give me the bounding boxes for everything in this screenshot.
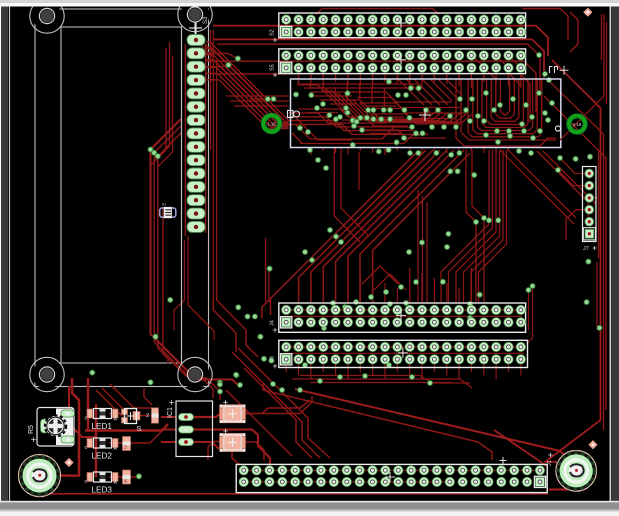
connector J7 xyxy=(583,167,597,253)
fiducial top-right xyxy=(583,8,592,17)
module origin cross xyxy=(189,22,201,34)
capacitor C5 xyxy=(220,429,246,452)
wire headerC top stubs xyxy=(360,268,471,302)
wire speaker net xyxy=(58,378,79,476)
svg-text:4: 4 xyxy=(124,479,127,485)
mounting hole top-left xyxy=(30,0,64,33)
svg-text:S2: S2 xyxy=(270,29,276,36)
wire module vertical bundle xyxy=(151,119,239,385)
wire bottom bus xyxy=(30,493,548,495)
wire IC box nested rings xyxy=(456,79,556,146)
U1 designator mark xyxy=(550,67,558,74)
wire bus top5 xyxy=(213,74,530,122)
wire inner-left verticals xyxy=(151,42,173,167)
wire stub via2 xyxy=(206,65,229,67)
svg-text:3: 3 xyxy=(124,445,127,451)
connector J1 (bottom long header) xyxy=(236,453,553,493)
wire IC box diag bundle xyxy=(398,79,462,105)
LCD module inner outline xyxy=(61,27,182,363)
test ring 1-16 left xyxy=(261,113,282,134)
wire bus top4 xyxy=(213,61,536,112)
LED LED3 xyxy=(85,472,119,495)
wire LED2 net xyxy=(109,431,162,443)
svg-text:LED3: LED3 xyxy=(92,486,113,495)
wire IC1 nets xyxy=(193,412,270,465)
resistor R4 xyxy=(123,470,131,485)
svg-text:NC: NC xyxy=(573,459,579,464)
wire long diagonal 1 xyxy=(295,389,572,462)
LED LED1 xyxy=(85,409,119,432)
wire header right-end stubs xyxy=(472,55,521,85)
resistor R2 xyxy=(146,408,159,423)
regulator IC1 xyxy=(176,401,213,457)
svg-text:DIG: DIG xyxy=(36,464,43,469)
svg-text:S: S xyxy=(137,424,142,433)
hole keepout masks xyxy=(33,2,62,31)
svg-text:1-16: 1-16 xyxy=(573,122,582,127)
wire top right hooks xyxy=(522,9,578,53)
wire right verticals to J7 xyxy=(466,150,596,302)
wire SP2 feed xyxy=(549,488,568,490)
LCD module outer outline xyxy=(35,9,209,387)
svg-text:1-16: 1-16 xyxy=(267,121,276,126)
wire long diagonal 3 xyxy=(494,430,546,466)
svg-text:J3: J3 xyxy=(270,356,276,362)
wire fan horizontals xyxy=(226,96,289,106)
IC U1 outline xyxy=(288,79,561,148)
svg-text:S5: S5 xyxy=(270,64,276,71)
buzzer SP2 xyxy=(556,451,597,492)
connector J4 (middle header upper) xyxy=(270,303,526,332)
buzzer SP1 xyxy=(19,455,61,497)
mounting hole bottom-left xyxy=(30,357,64,391)
wire bus top1 xyxy=(213,26,548,56)
svg-text:R5: R5 xyxy=(28,425,35,434)
wire chevrons xyxy=(362,266,406,290)
wire left edge top diag xyxy=(196,35,213,57)
svg-text:MB: MB xyxy=(37,485,43,490)
capacitor C4 xyxy=(220,400,246,423)
LED LED2 xyxy=(85,438,119,461)
window chrome left strip xyxy=(0,7,1,516)
wire LED1 net xyxy=(109,388,152,416)
switch S xyxy=(122,409,142,434)
window chrome right strip xyxy=(612,7,619,503)
mounting hole top-right xyxy=(178,0,212,32)
wire center highway xyxy=(262,150,470,318)
wire middle header row buses xyxy=(283,310,524,353)
svg-text:S3: S3 xyxy=(203,16,209,24)
connector SV2 (top boot header) xyxy=(270,13,526,42)
wire R5 net xyxy=(69,386,96,437)
wire bus top2 xyxy=(213,39,544,78)
wire right vertical bundle xyxy=(441,150,507,302)
window chrome bottom bars xyxy=(0,501,619,503)
wire headerC right bends xyxy=(528,286,533,343)
connector LCD1 (16-pin SIL) xyxy=(182,27,206,363)
wire IC box maze xyxy=(289,82,473,144)
wire caps net xyxy=(232,442,264,465)
svg-text:J7: J7 xyxy=(583,246,589,252)
wire top rail xyxy=(316,9,439,15)
wire LCD connector rails xyxy=(184,44,186,236)
wire right edge rails xyxy=(545,60,601,462)
svg-text:IC1: IC1 xyxy=(167,407,174,418)
wire via pair link xyxy=(250,98,274,100)
wire bus top3 xyxy=(217,44,540,96)
board left edge xyxy=(9,6,11,501)
wire J7 links xyxy=(558,158,599,240)
wire left bundle bends xyxy=(213,280,330,458)
svg-text:J1: J1 xyxy=(547,460,553,466)
wire bottom header row buses xyxy=(240,470,536,482)
svg-text:LED2: LED2 xyxy=(92,452,113,461)
wire LED column net xyxy=(85,378,168,477)
svg-text:LED1: LED1 xyxy=(92,422,113,431)
svg-text:MB: MB xyxy=(573,480,579,485)
board right edge xyxy=(609,6,611,501)
wire long diagonal 2 xyxy=(263,384,492,460)
potentiometer R5 xyxy=(37,408,75,447)
bottom header aux cross xyxy=(500,457,507,464)
svg-text:J4: J4 xyxy=(270,320,276,326)
wire diag into S xyxy=(96,384,152,416)
smd part icon xyxy=(160,203,176,219)
wire top right rails xyxy=(560,14,607,140)
resistor R3 xyxy=(123,437,131,452)
wire center verticals xyxy=(334,148,368,242)
wire mid-bottom collectors xyxy=(286,364,521,379)
wire LED3 net xyxy=(109,476,139,478)
mounting hole bottom-right xyxy=(178,357,212,391)
LCD1 origin cross xyxy=(190,22,202,34)
window chrome top strip xyxy=(0,0,619,3)
wire IC box stubs xyxy=(299,73,521,88)
connector J3 (middle header lower) xyxy=(270,340,528,368)
test ring 1-16 right xyxy=(567,114,588,135)
fiducial bottom-right xyxy=(588,440,597,449)
U1 origin cross xyxy=(560,66,569,75)
wire fan from LCD connector xyxy=(206,42,289,120)
fiducial left xyxy=(64,458,73,467)
svg-text:A1: A1 xyxy=(162,203,166,207)
vias xyxy=(90,52,602,479)
wire below-box stubs xyxy=(311,148,521,155)
connector SV5 (second header) xyxy=(270,49,526,77)
wire stub via1 xyxy=(206,53,238,59)
svg-text:2: 2 xyxy=(146,413,149,419)
